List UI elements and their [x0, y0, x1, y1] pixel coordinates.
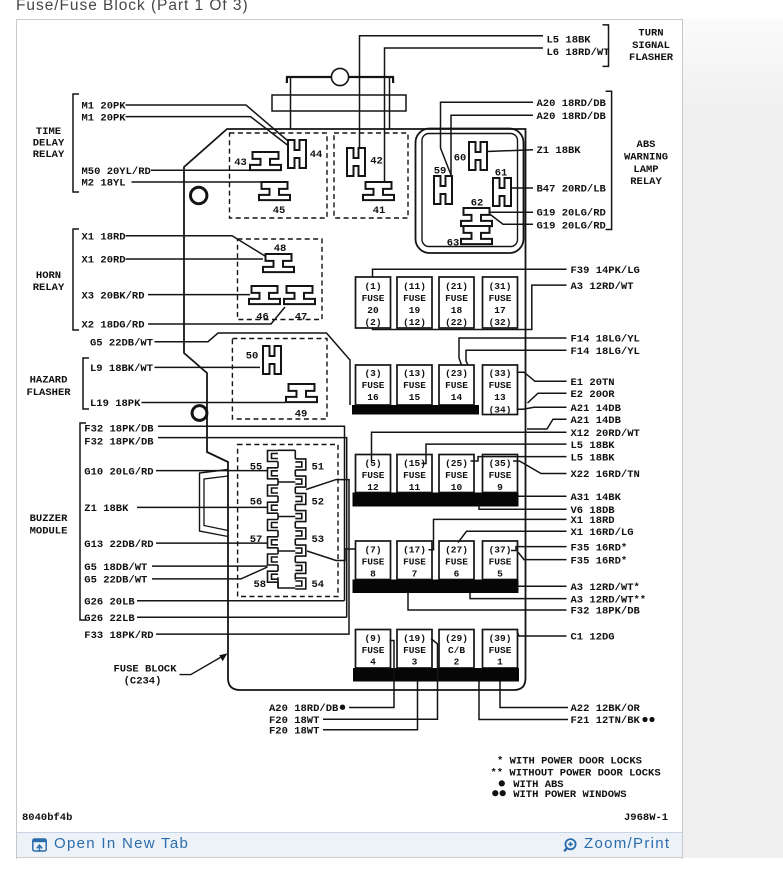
wire A20 (1): [441, 102, 534, 175]
svg-text:(29): (29): [445, 633, 468, 644]
svg-text:FUSE: FUSE: [489, 470, 512, 481]
wire G10: [156, 470, 268, 472]
wire F32 right: [408, 593, 567, 610]
svg-text:15: 15: [409, 392, 421, 403]
svg-text:A31 14BK: A31 14BK: [571, 492, 622, 504]
wire E2: [528, 393, 567, 403]
circuit breaker 2: [439, 630, 474, 669]
time delay relay dashed box: [230, 133, 328, 218]
svg-text:12: 12: [367, 482, 379, 493]
horn relay dashed box: [238, 239, 323, 320]
svg-text:FLASHER: FLASHER: [26, 387, 71, 399]
svg-text:4: 4: [370, 656, 376, 667]
svg-text:L6 18RD/WT: L6 18RD/WT: [547, 47, 610, 59]
pin 49: [286, 384, 317, 402]
svg-text:(1): (1): [364, 281, 381, 292]
svg-text:(39): (39): [489, 633, 512, 644]
svg-text:FUSE: FUSE: [403, 293, 426, 304]
svg-text:C1 12DG: C1 12DG: [571, 632, 615, 644]
svg-text:L5 18BK: L5 18BK: [547, 34, 592, 46]
svg-text:46: 46: [256, 312, 269, 324]
svg-text:FUSE: FUSE: [489, 380, 512, 391]
svg-text:42: 42: [370, 156, 383, 168]
wire A31: [519, 495, 567, 497]
wire F14 (1): [459, 338, 567, 365]
svg-text:20: 20: [367, 305, 379, 316]
svg-text:A3 12RD/WT: A3 12RD/WT: [571, 281, 634, 293]
wire A3 star: [519, 585, 567, 587]
bus bar under fuse row 12-9: [353, 493, 519, 507]
wire F35 (2): [518, 552, 567, 560]
svg-text:* WITH POWER DOOR LOCKS: * WITH POWER DOOR LOCKS: [497, 756, 642, 768]
svg-text:44: 44: [310, 149, 323, 161]
svg-text:9: 9: [497, 482, 503, 493]
svg-text:FUSE: FUSE: [362, 645, 385, 656]
svg-text:56: 56: [250, 496, 263, 508]
svg-text:48: 48: [274, 243, 287, 255]
fuse 14: [439, 365, 474, 405]
pin 63: [461, 226, 492, 244]
wire X1 (3): [429, 519, 567, 549]
wire X3: [148, 294, 250, 296]
wire L6 to turn signal flasher: [385, 48, 544, 182]
bus bar under fuse row 4-1: [353, 668, 519, 682]
wire F21: [479, 682, 568, 720]
wire G5 22DB/WT buzzer: [152, 567, 268, 579]
svg-text:49: 49: [295, 409, 308, 421]
fuse 8: [356, 541, 391, 580]
svg-text:FUSE: FUSE: [403, 556, 426, 567]
svg-text:A20 18RD/DB: A20 18RD/DB: [269, 703, 339, 715]
wire M2: [132, 181, 262, 183]
svg-text:FUSE: FUSE: [403, 470, 426, 481]
svg-text:X1 18RD: X1 18RD: [571, 515, 615, 527]
fuse 3: [397, 630, 432, 669]
ABS relay box outer: [416, 129, 524, 254]
svg-text:L5 18BK: L5 18BK: [571, 440, 616, 452]
svg-text:TURN: TURN: [638, 28, 663, 40]
pin 41: [363, 182, 394, 200]
svg-text:RELAY: RELAY: [630, 176, 662, 188]
svg-text:DELAY: DELAY: [33, 138, 65, 150]
svg-text:61: 61: [495, 168, 508, 180]
wire G19 (2): [489, 214, 533, 225]
svg-text:F32 18PK/DB: F32 18PK/DB: [84, 424, 154, 436]
svg-text:X12 20RD/WT: X12 20RD/WT: [571, 428, 640, 440]
connector plug inner: [204, 476, 228, 531]
svg-text:(32): (32): [489, 317, 512, 328]
pin 61: [493, 178, 511, 206]
wire V6: [479, 504, 567, 509]
wire M1 (2): [126, 117, 291, 147]
wire G5 18DB/WT: [152, 565, 268, 567]
bracket horn relay: [73, 229, 79, 330]
svg-text:FUSE: FUSE: [445, 380, 468, 391]
svg-text:FUSE BLOCK: FUSE BLOCK: [113, 664, 177, 676]
wire A20 bottom: [349, 641, 394, 708]
svg-text:F39 14PK/LG: F39 14PK/LG: [571, 265, 640, 277]
wire pin 53 to fuse 8: [307, 549, 356, 561]
svg-text:54: 54: [311, 579, 324, 591]
fuse 7: [397, 541, 432, 580]
svg-text:RELAY: RELAY: [33, 149, 65, 161]
svg-text:(9): (9): [364, 633, 381, 644]
svg-text:G13 22DB/RD: G13 22DB/RD: [84, 539, 153, 551]
svg-text:F35 16RD*: F35 16RD*: [571, 555, 628, 567]
svg-text:** WITHOUT POWER DOOR LOCKS: ** WITHOUT POWER DOOR LOCKS: [491, 768, 661, 780]
wire E1: [517, 372, 567, 381]
svg-text:FUSE: FUSE: [362, 470, 385, 481]
fuse 15: [397, 365, 432, 405]
svg-text:WARNING: WARNING: [624, 152, 668, 164]
svg-text:7: 7: [412, 568, 418, 579]
flasher pins dashed box: [334, 133, 408, 218]
wire B47: [511, 187, 533, 189]
wire F39: [373, 269, 567, 277]
wire A3 starstar: [470, 593, 567, 599]
svg-text:X1 16RD/LG: X1 16RD/LG: [571, 527, 634, 539]
svg-text:3: 3: [412, 656, 418, 667]
bus support wire left: [290, 78, 292, 129]
svg-text:2: 2: [454, 656, 460, 667]
bus support wire right: [389, 78, 391, 129]
svg-text:(35): (35): [489, 458, 512, 469]
svg-text:G5 22DB/WT: G5 22DB/WT: [84, 575, 147, 587]
fuse 1: [483, 630, 518, 669]
wire X2: [148, 307, 285, 324]
svg-text:50: 50: [246, 351, 259, 363]
fuse 13: [483, 365, 518, 415]
svg-text:51: 51: [311, 462, 324, 474]
svg-text:63: 63: [447, 238, 460, 250]
svg-text:M1 20PK: M1 20PK: [82, 112, 127, 124]
wire X1 (4): [458, 531, 567, 542]
bus bar under fuse row 16-13: [352, 405, 479, 415]
svg-text:A21 14DB: A21 14DB: [571, 403, 622, 415]
fuse 12: [356, 455, 391, 493]
svg-text:13: 13: [494, 392, 506, 403]
svg-text:ABS: ABS: [637, 139, 656, 151]
wire Z1 buzzer: [137, 506, 268, 508]
bracket hazard flasher: [83, 358, 89, 409]
svg-text:41: 41: [373, 205, 386, 217]
connector plug outer: [200, 470, 229, 537]
wire F35 (1): [511, 547, 567, 551]
fuse 6: [439, 541, 474, 580]
svg-text:G5 22DB/WT: G5 22DB/WT: [90, 337, 153, 349]
svg-text:FLASHER: FLASHER: [629, 52, 674, 64]
svg-text:M50 20YL/RD: M50 20YL/RD: [82, 166, 151, 178]
svg-text:(12): (12): [403, 317, 426, 328]
wire A20 (2): [451, 115, 533, 175]
fuse 19: [397, 277, 432, 328]
dots after F21 label: [642, 717, 647, 722]
svg-text:F32 18PK/DB: F32 18PK/DB: [84, 437, 154, 449]
bracket time delay relay: [73, 94, 79, 192]
fuse 20: [356, 277, 391, 328]
svg-text:RELAY: RELAY: [33, 282, 65, 294]
wire F32 (2): [158, 438, 347, 618]
pin 44: [288, 140, 306, 168]
svg-text:G26 22LB: G26 22LB: [84, 613, 135, 625]
svg-text:A3 12RD/WT*: A3 12RD/WT*: [571, 582, 640, 594]
legend dot with ABS: [499, 780, 505, 786]
svg-text:E2 20OR: E2 20OR: [571, 389, 616, 401]
svg-text:C/B: C/B: [448, 645, 465, 656]
svg-text:(31): (31): [489, 281, 512, 292]
buzzer module dashed box: [238, 445, 338, 597]
svg-text:8040bf4b: 8040bf4b: [22, 812, 72, 824]
svg-text:F32 18PK/DB: F32 18PK/DB: [571, 606, 641, 618]
svg-text:(27): (27): [445, 544, 468, 555]
svg-text:MODULE: MODULE: [30, 526, 68, 538]
svg-text:58: 58: [253, 579, 266, 591]
mount hole circle lower: [192, 406, 207, 421]
svg-text:FUSE: FUSE: [445, 293, 468, 304]
svg-text:(34): (34): [489, 404, 512, 415]
wire A21 (1): [517, 407, 567, 409]
pin 46: [249, 286, 280, 304]
svg-text:(33): (33): [489, 368, 512, 379]
bracket turn signal flasher: [603, 25, 609, 67]
wire M1 (1): [126, 105, 289, 141]
wire F20 (2): [323, 682, 418, 730]
svg-text:G19 20LG/RD: G19 20LG/RD: [537, 208, 606, 220]
pin 43: [250, 152, 281, 170]
svg-text:F14 18LG/YL: F14 18LG/YL: [571, 346, 640, 358]
svg-text:62: 62: [471, 198, 484, 210]
wire F33 to pin 52: [156, 480, 349, 634]
svg-text:E1 20TN: E1 20TN: [571, 377, 615, 389]
wire L19: [142, 402, 286, 404]
pin 47: [284, 286, 315, 304]
svg-text:(7): (7): [364, 544, 381, 555]
svg-text:G5 18DB/WT: G5 18DB/WT: [84, 562, 147, 574]
svg-text:(5): (5): [364, 458, 381, 469]
svg-text:55: 55: [250, 462, 263, 474]
svg-text:(11): (11): [403, 281, 426, 292]
svg-text:B47 20RD/LB: B47 20RD/LB: [537, 184, 607, 196]
bus bar rectangle: [272, 95, 406, 111]
wire F14 (2): [466, 350, 567, 365]
wire M50: [151, 169, 252, 171]
fuse 17: [483, 277, 518, 328]
bracket ABS warning lamp relay: [606, 91, 612, 229]
svg-text:F33 18PK/RD: F33 18PK/RD: [84, 630, 153, 642]
svg-text:L19 18PK: L19 18PK: [90, 398, 141, 410]
svg-text:10: 10: [451, 482, 463, 493]
mount hole circle upper: [191, 187, 207, 203]
fuse 10: [439, 455, 474, 493]
wire A21 (2): [527, 419, 567, 429]
bus mount circle: [331, 68, 348, 85]
svg-text:G10 20LG/RD: G10 20LG/RD: [84, 466, 153, 478]
svg-text:J968W-1: J968W-1: [624, 812, 668, 824]
svg-text:A21 14DB: A21 14DB: [571, 415, 622, 427]
wire L9: [155, 366, 261, 368]
fuse 5: [483, 541, 518, 580]
fuse 11: [397, 455, 432, 493]
svg-text:FUSE: FUSE: [445, 556, 468, 567]
svg-text:G19 20LG/RD: G19 20LG/RD: [537, 221, 606, 233]
svg-text:F21 12TN/BK: F21 12TN/BK: [571, 715, 641, 727]
wire X1 (2): [126, 258, 264, 260]
svg-text:45: 45: [273, 205, 286, 217]
svg-text:FUSE: FUSE: [445, 470, 468, 481]
wire F20 (1): [323, 639, 438, 720]
svg-text:LAMP: LAMP: [633, 164, 658, 176]
svg-text:47: 47: [295, 312, 308, 324]
svg-text:F20 18WT: F20 18WT: [269, 726, 319, 738]
svg-text:FUSE: FUSE: [362, 556, 385, 567]
fuse 18: [439, 277, 474, 328]
buzzer module connector pins 51-58: [268, 450, 306, 589]
svg-text:BUZZER: BUZZER: [30, 513, 69, 525]
svg-text:A20 18RD/DB: A20 18RD/DB: [537, 111, 607, 123]
svg-text:(2): (2): [364, 317, 381, 328]
pin 60: [469, 142, 487, 170]
svg-text:60: 60: [454, 153, 467, 165]
wire F32 (1): [158, 426, 345, 601]
wire L5 to turn signal flasher: [360, 36, 544, 147]
ABS relay box inner: [422, 134, 518, 247]
svg-text:SIGNAL: SIGNAL: [632, 40, 670, 52]
svg-text:53: 53: [311, 534, 324, 546]
wire A3 12RD/WT from fuse 20: [373, 285, 567, 329]
svg-text:X1 20RD: X1 20RD: [82, 255, 126, 267]
svg-text:(3): (3): [364, 368, 381, 379]
svg-text:59: 59: [434, 166, 447, 178]
wire G5 22DB/WT to fuse bar: [155, 333, 351, 405]
wire Z1 18BK: [487, 150, 533, 152]
wire A22: [500, 682, 568, 708]
svg-text:16: 16: [367, 392, 379, 403]
svg-text:(22): (22): [445, 317, 468, 328]
svg-text:FUSE: FUSE: [489, 293, 512, 304]
svg-text:(17): (17): [403, 544, 426, 555]
pin 62: [461, 208, 492, 226]
bracket buzzer module: [80, 423, 86, 620]
svg-text:HAZARD: HAZARD: [30, 374, 68, 386]
svg-text:18: 18: [451, 305, 463, 316]
svg-text:52: 52: [311, 496, 324, 508]
legend dots with power windows: [492, 790, 498, 796]
fuse 16: [356, 365, 391, 405]
svg-text:5: 5: [497, 568, 503, 579]
svg-text:FUSE: FUSE: [362, 380, 385, 391]
pin 45: [259, 182, 290, 200]
wire C1: [517, 632, 567, 637]
wire G19 (1): [489, 211, 533, 213]
wire G13: [156, 542, 268, 544]
dot after A20 label: [340, 705, 345, 710]
svg-text:X1 18RD: X1 18RD: [82, 231, 126, 243]
svg-text:1: 1: [497, 656, 503, 667]
svg-text:G26 20LB: G26 20LB: [84, 597, 135, 609]
pin 48: [263, 254, 294, 272]
wire G26 20LB: [137, 600, 345, 602]
svg-text:(25): (25): [445, 458, 468, 469]
svg-text:11: 11: [409, 482, 421, 493]
bus bar under fuse row 8-5: [353, 580, 519, 594]
fuse 9: [483, 455, 518, 493]
svg-text:F35 16RD*: F35 16RD*: [571, 542, 628, 554]
svg-text:F14 18LG/YL: F14 18LG/YL: [571, 334, 640, 346]
svg-text:19: 19: [409, 305, 421, 316]
svg-text:M1 20PK: M1 20PK: [82, 101, 127, 113]
svg-text:8: 8: [370, 568, 376, 579]
pin 42: [347, 148, 365, 176]
bus top bar: [286, 77, 394, 83]
svg-text:A22 12BK/OR: A22 12BK/OR: [571, 703, 641, 715]
pin 59: [434, 176, 452, 204]
arrow to fuse block: [180, 657, 223, 675]
svg-text:FUSE: FUSE: [489, 645, 512, 656]
svg-text:WITH POWER WINDOWS: WITH POWER WINDOWS: [513, 789, 626, 801]
svg-text:(C234): (C234): [124, 676, 162, 688]
wire G26 22LB: [137, 616, 347, 618]
svg-text:57: 57: [250, 534, 263, 546]
svg-text:HORN: HORN: [36, 270, 61, 282]
hazard flasher dashed box: [232, 339, 327, 420]
wire X1 (1): [126, 236, 266, 256]
svg-text:X22 16RD/TN: X22 16RD/TN: [571, 469, 640, 481]
svg-text:FUSE: FUSE: [362, 293, 385, 304]
svg-text:43: 43: [234, 157, 247, 169]
svg-text:L5 18BK: L5 18BK: [571, 452, 616, 464]
svg-text:(19): (19): [403, 633, 426, 644]
svg-text:L9 18BK/WT: L9 18BK/WT: [90, 363, 153, 375]
svg-text:FUSE: FUSE: [403, 645, 426, 656]
pin 50: [263, 346, 281, 374]
svg-text:(13): (13): [403, 368, 426, 379]
svg-text:A20 18RD/DB: A20 18RD/DB: [537, 98, 607, 110]
fuse 4: [356, 630, 391, 669]
svg-text:Z1 18BK: Z1 18BK: [537, 145, 582, 157]
wire X22: [513, 461, 567, 474]
fuse block outline (C234): [184, 129, 526, 690]
wire L5 (4): [471, 457, 567, 461]
svg-text:(23): (23): [445, 368, 468, 379]
svg-text:TIME: TIME: [36, 126, 61, 138]
svg-text:A3 12RD/WT**: A3 12RD/WT**: [571, 594, 647, 606]
svg-text:14: 14: [451, 392, 463, 403]
svg-text:(37): (37): [489, 544, 512, 555]
svg-text:M2 18YL: M2 18YL: [82, 178, 126, 190]
wire X12: [372, 432, 567, 461]
svg-text:6: 6: [454, 568, 460, 579]
svg-text:X2 18DG/RD: X2 18DG/RD: [82, 320, 145, 332]
svg-text:(21): (21): [445, 281, 468, 292]
svg-text:Z1 18BK: Z1 18BK: [84, 503, 129, 515]
svg-text:FUSE: FUSE: [403, 380, 426, 391]
wire L5 (3): [422, 444, 567, 463]
svg-text:FUSE: FUSE: [489, 556, 512, 567]
svg-text:X3 20BK/RD: X3 20BK/RD: [82, 290, 145, 302]
svg-text:17: 17: [494, 305, 506, 316]
